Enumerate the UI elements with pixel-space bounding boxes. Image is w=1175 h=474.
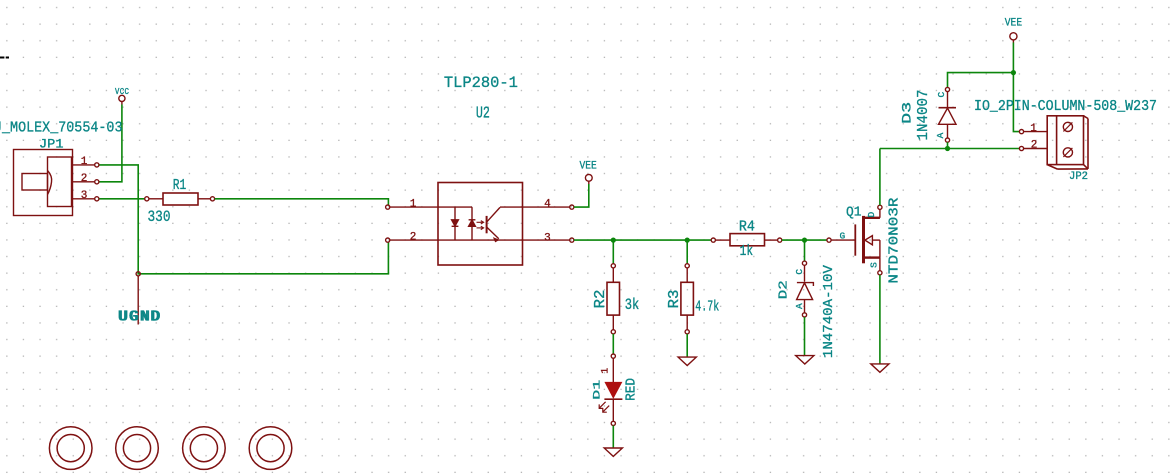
wire R1 to U2 pin1 xyxy=(215,199,389,205)
diode D3 xyxy=(935,87,956,148)
power symbol VEE (U2 pin4) xyxy=(585,174,592,184)
svg-text:VEE: VEE xyxy=(1005,18,1023,30)
svg-text:D: D xyxy=(866,211,877,217)
ground (Q1) xyxy=(871,364,889,372)
junction node D3 anode xyxy=(945,146,950,151)
wire Q1 drain up xyxy=(879,149,881,206)
wire R4 to Q1 gate xyxy=(782,239,827,241)
wire JP1 pin3 to R1 xyxy=(99,198,145,200)
LED D1 xyxy=(599,354,622,426)
wire vcc to JP1 pin2 xyxy=(99,105,122,182)
internal LEDs xyxy=(438,206,472,208)
connector JP1 xyxy=(14,150,99,216)
svg-text:2: 2 xyxy=(1031,139,1038,151)
svg-text:IO_2PIN-COLUMN-508_W237: IO_2PIN-COLUMN-508_W237 xyxy=(974,98,1157,115)
svg-text:1N4007: 1N4007 xyxy=(915,90,932,141)
svg-text:D2: D2 xyxy=(777,280,791,299)
wire drain to JP2 pin2 xyxy=(880,148,1020,150)
svg-text:D3: D3 xyxy=(900,102,914,124)
junction node VEE/D3 xyxy=(1011,70,1016,75)
svg-text:VEE: VEE xyxy=(580,161,598,173)
svg-text:TLP280-1: TLP280-1 xyxy=(444,74,518,92)
svg-text:JP2: JP2 xyxy=(1069,171,1088,183)
junction node D2 xyxy=(802,238,807,243)
svg-text:G: G xyxy=(839,230,845,241)
connector JP2 xyxy=(1019,116,1088,169)
resistor R1 xyxy=(145,193,215,205)
svg-text:1: 1 xyxy=(410,198,417,210)
mounting hole H3 xyxy=(183,427,226,470)
svg-text:1: 1 xyxy=(1030,123,1037,135)
svg-text:1k: 1k xyxy=(740,244,754,260)
svg-text:1N4740A-10V: 1N4740A-10V xyxy=(821,265,837,359)
svg-text:NTD70N03R: NTD70N03R xyxy=(887,197,903,284)
ground (D1) xyxy=(604,448,622,456)
resistor R3 xyxy=(681,264,694,334)
ground (D2) xyxy=(796,356,814,364)
svg-text:A: A xyxy=(794,303,805,309)
svg-text:3k: 3k xyxy=(625,296,640,314)
svg-text:vcc: vcc xyxy=(115,86,130,98)
svg-text:330: 330 xyxy=(148,208,171,226)
svg-text:2: 2 xyxy=(81,173,88,185)
zener D2 xyxy=(794,261,813,317)
op-to-coupler U2 TLP280-1 xyxy=(386,183,574,266)
svg-text:U2: U2 xyxy=(476,104,490,123)
svg-text:3: 3 xyxy=(544,232,551,244)
svg-text:D1: D1 xyxy=(592,380,604,400)
wire R2 to D1 xyxy=(612,334,614,354)
mounting hole H2 xyxy=(116,427,159,470)
wire to R2 xyxy=(612,240,614,264)
wire U2 pin3 to R4 xyxy=(574,239,711,241)
transistor Q1 NTD70N03R xyxy=(827,205,882,275)
mounting hole H1 xyxy=(49,427,92,470)
svg-text:1: 1 xyxy=(81,156,88,168)
wire JP1 pin1 to U2 pin2 xyxy=(99,165,388,274)
svg-text:4.7k: 4.7k xyxy=(695,298,719,315)
svg-text:A: A xyxy=(935,132,946,138)
svg-text:3: 3 xyxy=(81,190,88,202)
svg-text:RED: RED xyxy=(624,378,639,401)
svg-text:4: 4 xyxy=(544,198,551,210)
svg-text:2: 2 xyxy=(410,231,417,243)
resistor R2 xyxy=(607,264,620,334)
mounting hole H4 xyxy=(249,427,292,470)
wire VEE down to JP2 pin1 xyxy=(1013,43,1019,132)
wire to R3 xyxy=(686,240,688,264)
svg-text:R4: R4 xyxy=(739,219,755,235)
wire to D2 xyxy=(804,240,806,261)
resistor R4 xyxy=(711,234,782,246)
power symbol VEE (top right) xyxy=(1010,33,1017,43)
photo transistor xyxy=(486,216,488,233)
svg-text:S: S xyxy=(869,262,880,268)
power symbol vcc xyxy=(119,95,125,104)
wire D2 to gnd xyxy=(804,317,806,355)
ground (R3) xyxy=(678,357,696,365)
wire Q1 source to gnd xyxy=(879,275,881,364)
sheet border dash xyxy=(0,57,9,59)
light arrows xyxy=(477,221,484,223)
svg-text:JP1: JP1 xyxy=(39,136,64,151)
svg-text:J_MOLEX_70554-03: J_MOLEX_70554-03 xyxy=(0,120,123,137)
svg-text:C: C xyxy=(794,269,805,275)
junction node R3 xyxy=(685,238,690,243)
junction node R2 xyxy=(611,238,616,243)
wire R3 to gnd xyxy=(686,334,688,357)
svg-text:Q1: Q1 xyxy=(846,206,862,221)
wire U2 pin4 to VEE xyxy=(574,184,589,207)
wire VEE to D3 xyxy=(948,73,1014,88)
svg-text:1: 1 xyxy=(600,368,611,374)
svg-text:C: C xyxy=(936,91,947,97)
svg-text:R1: R1 xyxy=(173,178,187,194)
power label UGND xyxy=(118,272,161,326)
svg-text:R3: R3 xyxy=(666,290,683,309)
wire D1 to gnd xyxy=(612,426,614,448)
svg-text:R2: R2 xyxy=(592,290,609,309)
